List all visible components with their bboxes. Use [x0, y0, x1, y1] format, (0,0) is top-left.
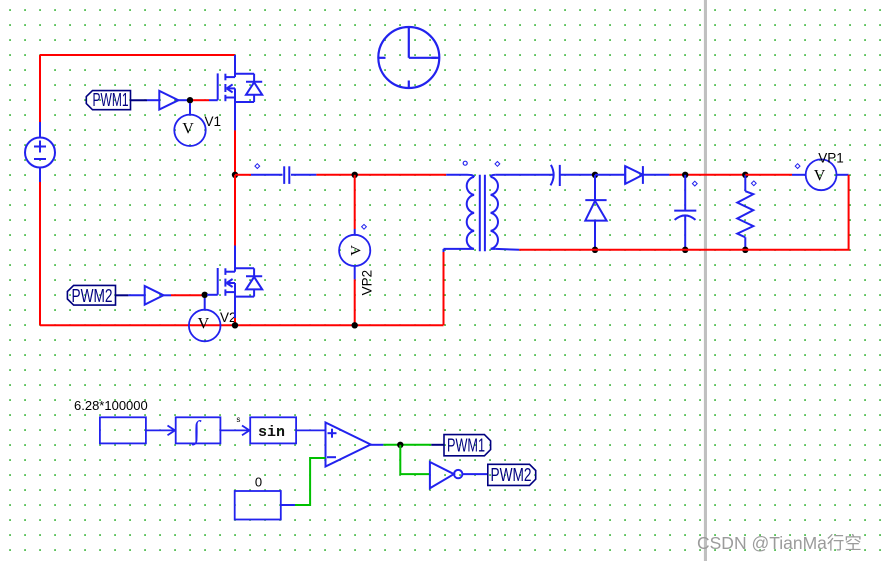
- node R bottom: [742, 247, 748, 253]
- marker VP2 plus: [362, 224, 367, 229]
- wire VP1 right to bottom rail: [837, 174, 849, 176]
- transformer T1 secondary winding: [491, 175, 498, 249]
- inverter U4: [430, 462, 463, 488]
- wire VP2 top: [354, 175, 356, 229]
- wire top rail: [40, 54, 235, 56]
- svg-text:0: 0: [255, 474, 262, 489]
- voltmeter VP2: [339, 235, 370, 266]
- wire PWM2 tag to buffer: [116, 294, 129, 296]
- marker T1 secondary dot: [495, 161, 500, 166]
- wire C2 to node: [560, 174, 595, 176]
- label tag PWM1 (gate input): [86, 91, 130, 110]
- svg-text:V: V: [182, 120, 194, 137]
- node secondary top left: [592, 172, 598, 178]
- node C3 bottom: [682, 247, 688, 253]
- svg-text:V: V: [198, 316, 210, 333]
- marker VP1 plus: [795, 164, 800, 169]
- wire K1 to integrator with arrow: [146, 426, 175, 436]
- svg-text:V: V: [814, 168, 826, 185]
- wire buffer to gate node: [178, 99, 190, 101]
- buffer U2: [145, 286, 164, 305]
- pane divider line: [704, 0, 707, 561]
- voltmeter V1: [189, 103, 191, 115]
- wire integrator to sin with arrow: [220, 426, 249, 436]
- constant box K1: [100, 417, 146, 443]
- node mid rail VP2: [352, 172, 358, 178]
- svg-text:CSDN @TianMa行空: CSDN @TianMa行空: [697, 533, 862, 553]
- wire buffer to gate node 2: [164, 294, 172, 296]
- node R top: [742, 172, 748, 178]
- svg-text:PWM1: PWM1: [93, 90, 129, 110]
- mosfet Q2: [218, 246, 235, 319]
- svg-text:sin: sin: [258, 424, 285, 441]
- wire mid rail: [235, 174, 251, 176]
- wire gate node to Q2 gate: [207, 294, 218, 296]
- wire rail to transformer primary bottom: [443, 252, 445, 325]
- clock symbol: [378, 27, 439, 88]
- wire PWM1 tag to buffer: [131, 99, 148, 101]
- wire Q1 source to mid node: [234, 130, 236, 174]
- capacitor C1: [284, 166, 289, 184]
- svg-text:PWM1: PWM1: [447, 436, 485, 456]
- wire Q2 source to bottom rail: [234, 318, 236, 325]
- wire mid rail to transformer: [316, 174, 446, 176]
- voltmeter VP1: [806, 159, 837, 190]
- diode D1 (series): [625, 166, 643, 184]
- label tag PWM1 (output): [444, 435, 491, 456]
- svg-text:V: V: [349, 245, 365, 256]
- node bottom rail VP2: [352, 322, 358, 328]
- marker T1 primary dot: [463, 161, 467, 165]
- wire D1 to output node: [643, 174, 670, 176]
- node mid rail left: [232, 172, 238, 178]
- wire source top lead: [39, 122, 41, 138]
- transformer T1 core: [480, 175, 485, 251]
- wire source bottom lead: [39, 168, 41, 183]
- capacitor C3 (filter): [674, 211, 696, 220]
- node C3 top: [682, 172, 688, 178]
- node gate2: [202, 292, 208, 298]
- wire D2 bottom lead: [594, 221, 596, 250]
- diode D2 (freewheel): [585, 200, 606, 221]
- wire VP2 bottom: [354, 266, 356, 279]
- capacitor C2 (series, secondary): [551, 165, 560, 186]
- transformer T1 primary winding: [444, 175, 475, 249]
- wire zero to comparator minus: [281, 504, 295, 506]
- wire bottom rail: [40, 324, 444, 326]
- wire to VP1: [745, 174, 792, 176]
- buffer U1: [159, 91, 178, 110]
- constant box zero: [235, 491, 281, 520]
- node secondary bottom left: [592, 247, 598, 253]
- wire left drop lower: [39, 182, 41, 325]
- wire secondary bottom lead: [496, 248, 520, 251]
- dc source VDC: [25, 138, 55, 168]
- label tag PWM2 (output): [488, 464, 536, 485]
- integrator box: [176, 417, 221, 443]
- sin box: [250, 417, 296, 443]
- label tag PWM2 (gate input): [67, 285, 115, 305]
- resistor R load: [737, 175, 753, 250]
- marker C1 plus: [255, 164, 260, 169]
- wire D2 top lead: [594, 175, 596, 200]
- mosfet Q1: [218, 55, 235, 130]
- svg-text:V1: V1: [205, 114, 222, 129]
- svg-text:PWM2: PWM2: [491, 465, 532, 485]
- svg-text:6.28*100000: 6.28*100000: [74, 398, 148, 413]
- wire gate node to Q1 gate: [193, 99, 209, 101]
- node comparator output: [397, 442, 403, 448]
- wire Q1 source to Q2 drain: [234, 175, 236, 246]
- svg-text:VP1: VP1: [818, 151, 844, 166]
- wire comparator output: [371, 444, 384, 446]
- body diode Q2: [235, 268, 262, 296]
- wire node to D1: [595, 174, 625, 176]
- svg-text:PWM2: PWM2: [72, 286, 113, 306]
- svg-text:VP2: VP2: [360, 270, 375, 296]
- svg-text:s: s: [236, 416, 241, 425]
- marker C3 plus: [692, 181, 697, 186]
- wire left drop upper: [39, 55, 41, 122]
- wire secondary top lead: [496, 174, 554, 176]
- node gate1: [187, 97, 193, 103]
- wire branch to inverter: [400, 445, 430, 474]
- body diode Q1: [235, 74, 262, 102]
- node bottom rail Q2: [232, 322, 238, 328]
- voltmeter V2: [204, 298, 206, 310]
- wire C3 top lead: [684, 175, 686, 211]
- comparator U3: [326, 423, 371, 467]
- marker R plus: [751, 181, 756, 186]
- wire sin to comparator: [296, 429, 325, 431]
- wire C3 bottom lead: [684, 215, 686, 250]
- wire inverter to PWM2 tag: [462, 473, 487, 475]
